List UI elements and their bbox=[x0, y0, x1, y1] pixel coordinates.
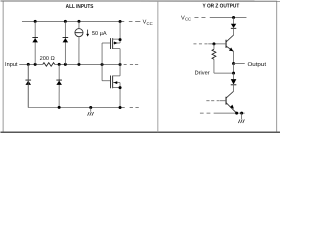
svg-text:Input: Input bbox=[5, 62, 18, 68]
ground symbol (left panel) bbox=[90, 107, 92, 111]
transistor Q4 (lower NPN) bbox=[226, 91, 233, 98]
output node dot bbox=[232, 62, 235, 65]
node dot rail/pmos source column bbox=[119, 20, 122, 23]
node dot rail/diode D1 bbox=[34, 20, 37, 23]
svg-text:CC: CC bbox=[185, 17, 191, 22]
pmos Q1 bbox=[109, 38, 111, 49]
pmos gate lead bbox=[102, 42, 110, 44]
node dot input/lower diode D4 bbox=[58, 63, 61, 66]
svg-text:Output: Output bbox=[247, 62, 266, 68]
node dot gnd/nmos column bbox=[119, 106, 122, 109]
gnd rail (left panel) bbox=[28, 64, 125, 107]
pmos drain wire down bbox=[119, 49, 121, 65]
node dot gnd symbol bbox=[240, 112, 243, 115]
border frame bbox=[3, 1, 277, 132]
VCC rail (right panel) bbox=[210, 16, 247, 18]
node dot drain junction bbox=[119, 63, 122, 66]
node dot nmos source bbox=[119, 86, 122, 89]
gnd rail dashes bbox=[130, 106, 133, 108]
output lead bbox=[234, 62, 245, 64]
node dot input/lower diode D3 bbox=[27, 63, 30, 66]
wire resistor corner to node X bbox=[214, 72, 234, 74]
wire output to node X bbox=[233, 63, 235, 73]
node dot gnd/ground symbol bbox=[89, 106, 92, 109]
current source I1 50uA bbox=[78, 21, 80, 28]
input wire bbox=[19, 63, 43, 65]
dashes to internal circuitry bbox=[124, 63, 127, 65]
VCC rail (left panel) bbox=[22, 20, 124, 22]
wire dashes to VCC label bbox=[129, 20, 133, 22]
node dot rail/current source bbox=[77, 20, 80, 23]
svg-text:CC: CC bbox=[147, 21, 153, 26]
gate riser wire bbox=[101, 43, 103, 81]
50uA arrow bbox=[87, 30, 89, 35]
node dot X bbox=[232, 72, 235, 75]
node dot pmos source bbox=[119, 38, 122, 41]
node dot input/upper diode D1 bbox=[34, 63, 37, 66]
svg-text:Y OR Z OUTPUT: Y OR Z OUTPUT bbox=[203, 4, 240, 10]
node dot Q3 base/resistor bbox=[212, 42, 215, 45]
Q3 base wire bbox=[208, 43, 226, 45]
nmos drain wire up bbox=[119, 64, 121, 75]
Q3 base drive dashes bbox=[193, 43, 196, 45]
nmos source column to gnd rail bbox=[119, 83, 121, 108]
ground symbol (right panel) bbox=[241, 113, 243, 119]
clamp diode D1 (input to VCC) bbox=[34, 21, 36, 64]
Q4 base wire bbox=[219, 100, 226, 102]
clamp diode D4 (gnd to input) bbox=[58, 64, 60, 107]
node dot VCC/diode bbox=[232, 16, 235, 19]
nmos gate lead bbox=[102, 80, 110, 82]
resistor R2 (base-emitter) bbox=[213, 44, 215, 49]
gnd line (right panel) dashes bbox=[200, 112, 204, 114]
node dot input/upper diode D2 bbox=[64, 63, 67, 66]
panel divider bbox=[157, 1, 159, 132]
diode D6 (node X to Q4 collector) bbox=[233, 73, 235, 79]
nmos Q2 bbox=[109, 75, 111, 88]
node dot input/current source bbox=[77, 63, 80, 66]
clamp diode D2 (input to VCC) bbox=[64, 21, 66, 64]
node dot emitter/gnd line bbox=[235, 112, 238, 115]
diode D5 (VCC to Q3 collector) bbox=[233, 17, 235, 23]
node dot rail/diode D2 bbox=[64, 20, 67, 23]
pmos source column from rail bbox=[119, 21, 121, 43]
svg-text:Driver: Driver bbox=[195, 70, 210, 77]
clamp diode D3 (gnd to input) bbox=[27, 64, 29, 107]
node dot input/gate riser bbox=[101, 63, 104, 66]
svg-text:50 µA: 50 µA bbox=[92, 31, 107, 37]
Q4 base drive dashes bbox=[206, 100, 209, 102]
resistor 200 ohm bbox=[43, 63, 55, 67]
gnd line (right panel) bbox=[214, 112, 245, 114]
node dot gnd/diode D4 bbox=[58, 106, 61, 109]
transistor Q3 (upper NPN) bbox=[226, 35, 233, 42]
svg-text:200 Ω: 200 Ω bbox=[40, 56, 55, 62]
VCC lead dashes bbox=[194, 16, 198, 18]
svg-text:ALL INPUTS: ALL INPUTS bbox=[66, 4, 94, 10]
